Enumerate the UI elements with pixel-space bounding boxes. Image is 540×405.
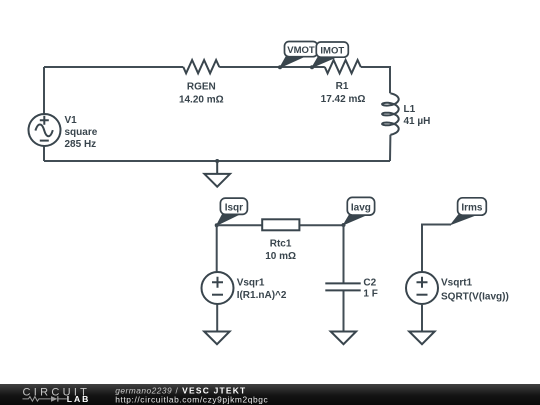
svg-text:1 F: 1 F [363, 289, 377, 300]
svg-text:Irms: Irms [461, 203, 483, 214]
wire Irms to Vsqrt1 [422, 225, 451, 273]
wire Vsqrt1 to ground [421, 304, 423, 332]
svg-text:LAB: LAB [67, 394, 90, 404]
footer logo schematic glyph [23, 396, 67, 401]
node dot VMOT [278, 65, 282, 69]
node dot Isqr [215, 223, 219, 227]
source Vsqr1 [202, 272, 234, 304]
svg-text:10 mΩ: 10 mΩ [265, 251, 296, 262]
svg-text:14.20 mΩ: 14.20 mΩ [179, 95, 224, 106]
svg-text:Isqr: Isqr [225, 202, 243, 213]
svg-text:Vsqrt1: Vsqrt1 [441, 278, 473, 289]
node dot Iavg [342, 223, 346, 227]
wire left [43, 67, 45, 161]
svg-text:Rtc1: Rtc1 [270, 239, 292, 250]
svg-text:C2: C2 [363, 278, 376, 289]
svg-text:Vsqr1: Vsqr1 [237, 278, 265, 289]
wire right [389, 66, 391, 161]
svg-text:Iavg: Iavg [351, 202, 371, 213]
resistor R1 [325, 60, 361, 73]
ground top [204, 161, 230, 187]
inductor L1 [382, 93, 399, 135]
svg-text:R1: R1 [336, 81, 349, 92]
footer bar [0, 384, 540, 405]
wire top [44, 66, 390, 68]
svg-text:41 µH: 41 µH [404, 116, 431, 127]
svg-text:L1: L1 [404, 104, 416, 115]
svg-text:RGEN: RGEN [187, 82, 216, 93]
svg-text:SQRT(V(Iavg)): SQRT(V(Iavg)) [441, 292, 509, 303]
label Iavg [344, 197, 375, 224]
source Vsqrt1 [406, 272, 438, 304]
label Irms [451, 198, 486, 225]
wire Iavg down to C2 [343, 225, 345, 332]
probe VMOT [280, 42, 318, 68]
voltage source V1 [29, 114, 61, 146]
svg-text:285 Hz: 285 Hz [65, 139, 97, 150]
svg-text:IMOT: IMOT [320, 45, 344, 56]
resistor RGEN [183, 60, 219, 73]
ground Vsqrt1 [409, 332, 434, 345]
ground C2 [331, 332, 356, 345]
wire bottom [44, 160, 390, 162]
svg-text:square: square [65, 127, 98, 138]
wire Isqr down to Vsqr1 [216, 225, 219, 331]
svg-text:VMOT: VMOT [287, 45, 315, 56]
capacitor C2 [325, 283, 360, 290]
svg-text:17.42 mΩ: 17.42 mΩ [321, 94, 366, 105]
wire Isqr to Rtc1 to Iavg [217, 224, 344, 226]
svg-text:http://circuitlab.com/czy9pjkm: http://circuitlab.com/czy9pjkm2qbgc [115, 394, 268, 404]
svg-text:V1: V1 [65, 115, 78, 126]
ground Vsqr1 [204, 332, 229, 345]
svg-text:I(R1.nA)^2: I(R1.nA)^2 [237, 290, 287, 301]
probe IMOT [312, 42, 348, 68]
node dot IMOT [310, 65, 314, 69]
node dot ground top [215, 159, 219, 163]
label Isqr [217, 198, 248, 225]
resistor Rtc1 [262, 219, 299, 230]
